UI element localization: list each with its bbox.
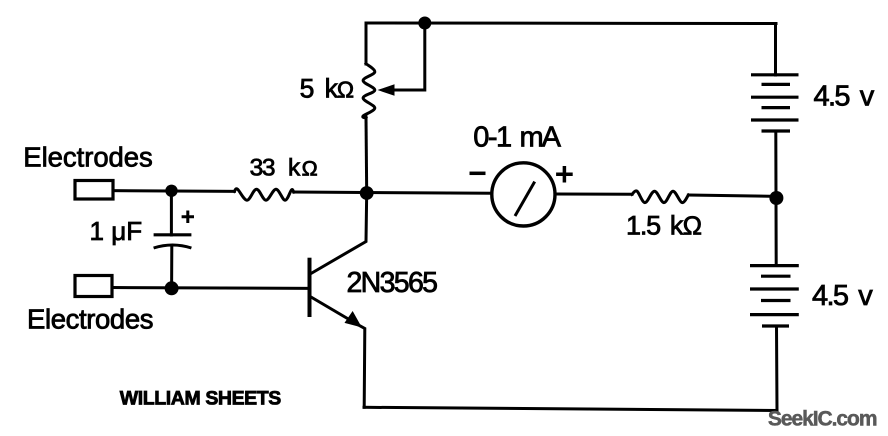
svg-text:1.5: 1.5 (626, 211, 660, 241)
svg-text:v: v (858, 280, 873, 312)
svg-text:Ω: Ω (337, 77, 354, 103)
svg-text:mA: mA (520, 122, 562, 154)
svg-text:v: v (860, 80, 875, 112)
svg-text:2N3565: 2N3565 (347, 267, 439, 299)
svg-text:Ω: Ω (302, 157, 318, 181)
svg-text:Electrodes: Electrodes (27, 304, 154, 335)
svg-text:WILLIAM SHEETS: WILLIAM SHEETS (120, 388, 281, 410)
svg-text:5: 5 (300, 74, 315, 104)
svg-text:k: k (288, 155, 301, 182)
svg-text:1 μF: 1 μF (90, 216, 143, 246)
svg-text:33: 33 (250, 155, 276, 182)
svg-text:Electrodes: Electrodes (23, 142, 153, 173)
svg-text:Ω: Ω (683, 211, 702, 241)
svg-text:4.5: 4.5 (812, 280, 849, 312)
svg-text:0-1: 0-1 (473, 122, 511, 154)
svg-text:4.5: 4.5 (814, 80, 851, 112)
svg-text:SeekIC.com: SeekIC.com (768, 408, 878, 431)
